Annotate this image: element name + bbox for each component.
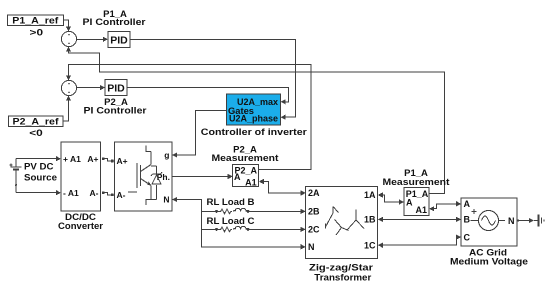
svg-text:A: A [406,197,413,207]
svg-text:A1: A1 [245,178,257,188]
sum junction Sum2 [61,80,76,95]
wire AC grid N to ground [517,218,538,223]
svg-text:P1_A_ref: P1_A_ref [12,15,59,26]
battery PV source symbol [10,159,22,193]
block P1_A_ref [8,15,64,38]
svg-text:A-: A- [117,190,126,200]
label DC/DC Converter [58,212,103,232]
svg-text:A-: A- [90,188,99,198]
svg-text:>0: >0 [30,27,44,38]
wire feedback P1A to Sum1 [66,47,444,194]
wire P1_A_ref to Sum1 [64,20,72,31]
wire Gates to inverter g [172,111,227,158]
connector squiggle bottom DC/DC to inverter [102,191,115,196]
svg-text:U2A_phase: U2A_phase [229,114,278,124]
wire transformer 1C to AC grid C [378,235,461,248]
block P1_A measurement [404,188,429,216]
svg-text:Medium Voltage: Medium Voltage [450,257,528,268]
wire P1A meas A1 to AC grid A [429,201,461,211]
svg-text:- A1: - A1 [63,188,79,198]
block PID1 [108,32,130,48]
svg-text:PV DC: PV DC [24,162,54,173]
wire PV minus to DC/DC [16,190,61,195]
svg-text:2A: 2A [308,188,320,198]
svg-text:RL Load B: RL Load B [207,197,255,208]
svg-text:+ A1: + A1 [63,154,81,164]
AC source icon [471,209,506,231]
svg-text:A: A [464,199,471,209]
label P1_A PI Controller [83,9,146,28]
svg-text:1A: 1A [364,190,376,200]
svg-text:<0: <0 [29,128,43,139]
block PID2 [105,80,127,96]
svg-text:Source: Source [24,172,57,183]
wire transformer 1A to P1A measurement [378,192,404,204]
block Zig-zag/Star Transformer [306,187,378,259]
wire PV plus to DC/DC [16,156,61,161]
transformer star winding icon [348,210,365,230]
wire P2_A_ref to Sum2 [63,96,71,122]
svg-text:N: N [163,195,169,205]
svg-text:A+: A+ [87,154,98,164]
transformer zigzag winding icon [326,207,349,236]
label Zig-zag/Star Transformer [309,262,373,283]
svg-text:C: C [464,232,471,242]
wire P2A meas A1 to transformer 2A [259,179,306,196]
svg-text:Converter: Converter [58,221,103,232]
label AC Grid Medium Voltage [450,248,528,268]
svg-text:PI Controller: PI Controller [84,106,147,117]
block DC/DC Converter [61,142,101,211]
svg-text:Controller of inverter: Controller of inverter [201,127,307,138]
svg-text:A: A [234,172,241,182]
connector squiggle top DC/DC to inverter [102,157,115,162]
svg-text:A1: A1 [415,205,427,215]
label RL Load C [207,216,255,227]
svg-text:2C: 2C [308,225,320,235]
svg-text:g: g [164,150,169,160]
wire Sum1 to PID1 [77,37,108,42]
svg-text:N: N [508,216,515,226]
svg-text:P2_A_ref: P2_A_ref [13,116,60,127]
wire inverter Ph to P2A measurement [172,174,233,179]
wire PID1 to U2A_phase [130,39,296,120]
svg-text:B: B [464,215,471,225]
svg-text:RL Load C: RL Load C [207,216,255,227]
label P2_A Measurement [212,145,280,165]
svg-text:PID: PID [110,34,128,46]
svg-text:Measurement: Measurement [383,177,451,188]
block inverter [115,142,173,211]
block P2_A measurement [233,165,259,188]
svg-text:1B: 1B [364,215,376,225]
svg-text:2B: 2B [308,207,320,217]
wire inverter N to transformer N [172,197,306,250]
sum junction Sum1 [61,31,76,46]
load branch RL Load B [202,208,306,214]
transistor IGBT icon [128,146,162,206]
wire PID2 to U2A_max [127,88,288,105]
label PV DC Source [24,162,57,184]
block AC Grid [461,198,517,246]
wire transformer 1B to AC grid B [378,217,461,222]
block P2_A_ref [9,116,64,139]
load branch RL Load C [202,226,306,232]
label RL Load B [207,197,255,208]
label P1_A Measurement [383,168,451,188]
svg-text:N: N [308,242,315,252]
wire Sum2 to PID2 [77,85,105,90]
label Controller of inverter [201,127,307,138]
svg-text:Transformer: Transformer [314,272,371,283]
svg-text:Measurement: Measurement [212,153,280,164]
svg-text:1C: 1C [364,240,376,250]
label P2_A PI Controller [84,97,147,117]
block Controller of inverter [227,94,281,125]
svg-text:PID: PID [107,82,125,94]
svg-text:A+: A+ [117,156,128,166]
ground symbol [539,215,545,227]
wire feedback P2A to Sum2 [66,65,311,170]
svg-text:PI Controller: PI Controller [83,17,146,28]
